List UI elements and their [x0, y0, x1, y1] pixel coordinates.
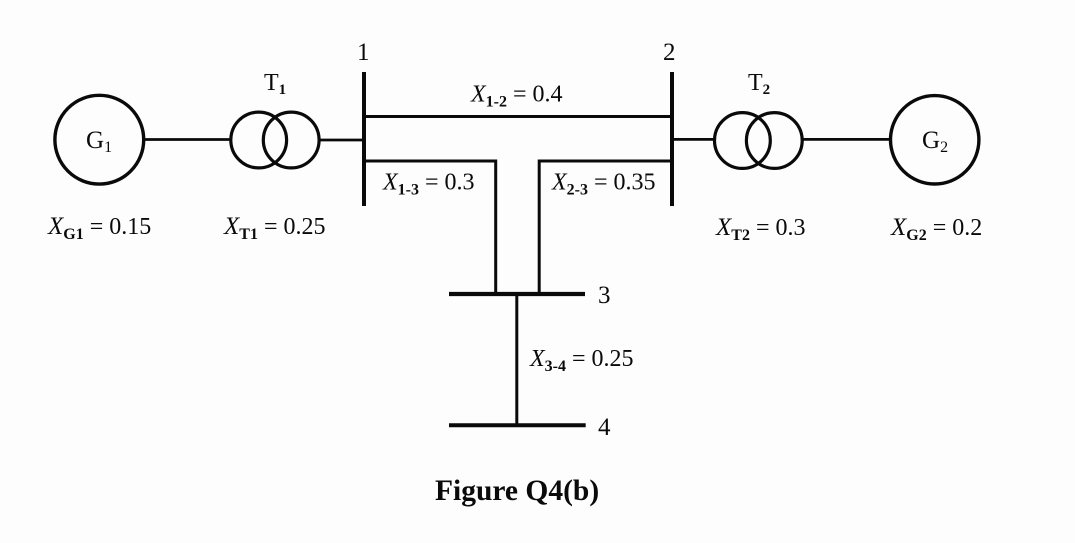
- svg-text:T2: T2: [748, 70, 770, 98]
- svg-text:G2: G2: [922, 127, 948, 156]
- bus 4: [449, 423, 586, 427]
- svg-text:2: 2: [663, 39, 676, 66]
- wire bus 1 to bus 3: [364, 161, 496, 292]
- svg-text:X2-3 = 0.35: X2-3 = 0.35: [551, 170, 656, 199]
- transformer T1: [231, 112, 319, 168]
- svg-text:T1: T1: [264, 70, 286, 98]
- svg-text:XT1 = 0.25: XT1 = 0.25: [223, 213, 326, 243]
- svg-text:4: 4: [598, 414, 611, 441]
- svg-text:XG2 = 0.2: XG2 = 0.2: [890, 214, 982, 244]
- svg-text:X1-2 = 0.4: X1-2 = 0.4: [470, 82, 563, 111]
- wire bus 2 to bus 3: [539, 161, 672, 292]
- wire bus 3 to bus 4: [515, 294, 518, 425]
- svg-text:1: 1: [357, 39, 370, 66]
- wire line 1-2: [364, 115, 672, 118]
- svg-text:G1: G1: [86, 127, 112, 156]
- wire T1 to bus 1: [319, 139, 364, 142]
- bus 2: [670, 72, 674, 206]
- wire bus 2 to T2: [672, 138, 714, 141]
- svg-text:X3-4 = 0.25: X3-4 = 0.25: [529, 346, 634, 375]
- svg-text:XG1 = 0.15: XG1 = 0.15: [47, 213, 151, 243]
- wire T2 to G2: [802, 138, 892, 141]
- svg-text:XT2 = 0.3: XT2 = 0.3: [715, 214, 806, 244]
- generator G1: [55, 95, 144, 184]
- svg-text:X1-3 = 0.3: X1-3 = 0.3: [382, 170, 475, 199]
- wire G1 to T1: [144, 138, 231, 141]
- generator G2: [891, 96, 979, 184]
- bus 1: [362, 72, 366, 206]
- bus 3: [449, 292, 585, 296]
- svg-text:Figure Q4(b): Figure Q4(b): [435, 475, 599, 507]
- svg-text:3: 3: [598, 282, 611, 309]
- transformer T2: [715, 113, 803, 169]
